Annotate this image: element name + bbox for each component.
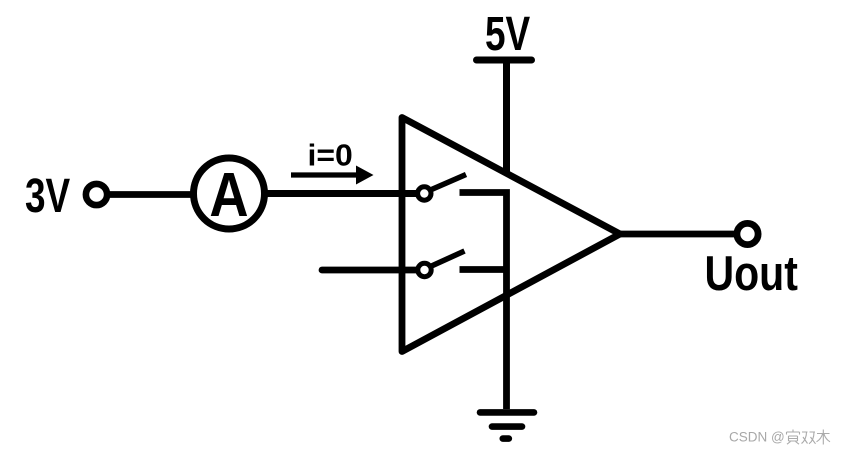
svg-text:CSDN @: CSDN @ xyxy=(729,430,785,445)
wire: switch S1 stub and rail down (bracket) xyxy=(460,193,507,410)
wire: switch S2 stub to rail xyxy=(460,266,507,273)
svg-text:A: A xyxy=(209,161,248,230)
ammeter A1 xyxy=(194,158,265,230)
terminal Uout xyxy=(737,223,758,244)
current arrow xyxy=(291,166,374,185)
switch S1 lever xyxy=(432,175,467,190)
wire: 5V bar to op-amp power pin xyxy=(503,62,510,172)
wire: op-amp output xyxy=(618,231,735,238)
terminal 3V xyxy=(86,184,107,205)
svg-text:Uout: Uout xyxy=(705,246,798,301)
svg-text:5V: 5V xyxy=(485,7,531,61)
svg-text:i=0: i=0 xyxy=(308,138,353,172)
wire: inverting input (bottom) xyxy=(322,267,418,274)
op-amp U1 triangle xyxy=(402,118,620,352)
watermark glyph 木 xyxy=(817,430,831,445)
watermark glyph 寅 xyxy=(787,430,800,445)
supply 5V bar xyxy=(477,57,532,64)
svg-text:3V: 3V xyxy=(25,169,71,223)
wire: 3V terminal to ammeter xyxy=(107,191,192,198)
ground xyxy=(480,412,534,438)
switch S1 contact circle (top input) xyxy=(418,187,431,200)
switch S2 lever xyxy=(432,251,465,266)
switch S2 contact circle (bottom input) xyxy=(418,263,431,276)
watermark glyph 双 xyxy=(802,432,816,444)
wire: ammeter to op-amp non-inverting input xyxy=(265,190,418,197)
watermark CSDN xyxy=(729,430,785,445)
